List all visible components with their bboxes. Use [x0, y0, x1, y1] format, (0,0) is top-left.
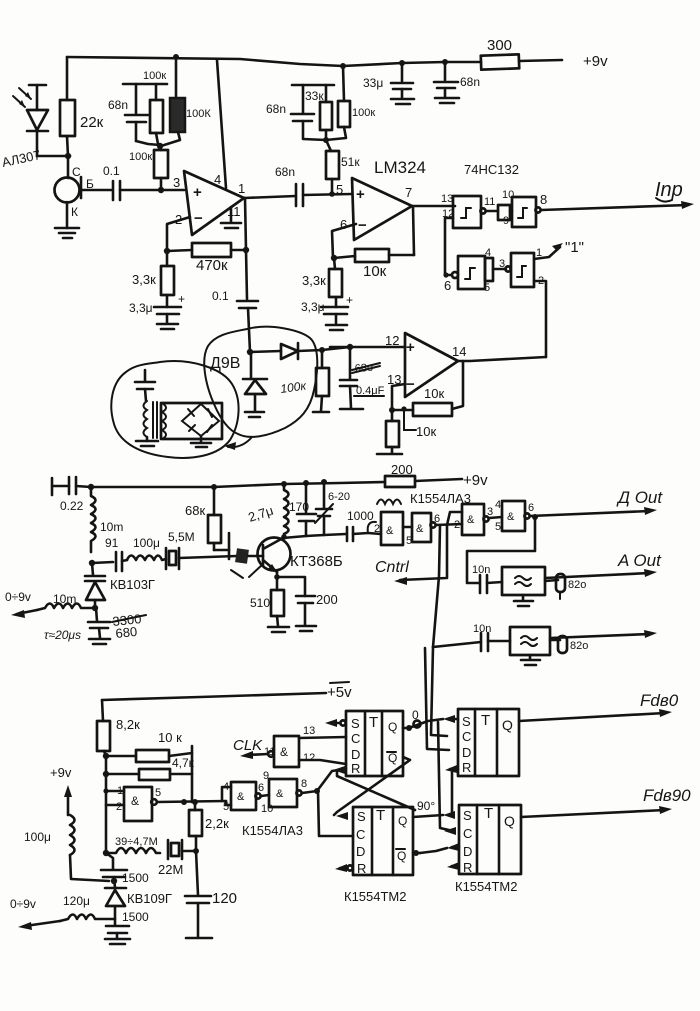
gate 74HC132d — [484, 247, 544, 294]
svg-text:82о: 82о — [568, 579, 586, 591]
svg-text:0.1: 0.1 — [103, 164, 120, 178]
resistor 200 rail — [385, 462, 488, 489]
svg-text:8,2к: 8,2к — [116, 717, 140, 732]
capacitor 10n filter1 — [472, 564, 502, 593]
svg-text:C: C — [356, 827, 365, 842]
svg-text:3,3к: 3,3к — [302, 273, 326, 288]
capacitor 33u — [363, 63, 414, 104]
svg-text:&: & — [467, 514, 475, 526]
node junction b1 — [103, 753, 109, 759]
svg-text:0: 0 — [412, 708, 419, 722]
resistor 100K dark — [161, 57, 211, 146]
node junction b2 — [103, 771, 109, 777]
svg-text:10: 10 — [261, 803, 273, 815]
svg-text:3: 3 — [487, 506, 493, 518]
svg-text:2: 2 — [116, 801, 122, 813]
wire pin12 input — [330, 346, 405, 349]
svg-text:1: 1 — [238, 181, 245, 196]
wire trunk Cntrl — [400, 525, 447, 580]
svg-text:300: 300 — [487, 37, 512, 54]
svg-text:S: S — [463, 808, 472, 823]
svg-text:T: T — [481, 712, 490, 729]
svg-text:1500: 1500 — [122, 871, 149, 885]
wire gateB out — [436, 524, 462, 525]
resistor 82o — [550, 636, 588, 653]
capacitor 0.4uF — [340, 347, 385, 409]
svg-text:Inp: Inp — [655, 179, 683, 201]
node junction pin3 — [158, 187, 164, 193]
node junction DOut-branch — [532, 514, 538, 520]
node junction fb3 — [389, 407, 395, 413]
resistor 10k fb3 — [392, 386, 452, 416]
svg-text:&: & — [131, 794, 139, 808]
svg-text:К1554ТМ2: К1554ТМ2 — [455, 879, 518, 894]
node junction filters — [157, 143, 163, 149]
crystal 22M — [158, 840, 196, 877]
svg-text:D: D — [462, 745, 471, 760]
wire FF1 Qbar cross — [334, 757, 410, 815]
wire FF2 S arrow — [443, 715, 458, 723]
svg-text:T: T — [484, 805, 493, 822]
svg-text:11: 11 — [227, 204, 241, 219]
resistor 820 — [545, 574, 586, 599]
wire Inp output — [541, 179, 694, 210]
gate K1554LA3e — [222, 781, 264, 813]
wire col2 to 51k — [326, 140, 331, 151]
svg-text:82о: 82о — [570, 640, 588, 652]
svg-text:8: 8 — [301, 778, 307, 790]
wire output down — [452, 361, 463, 409]
wire pin4 to rail — [217, 60, 226, 188]
capacitor 68n left column — [108, 84, 160, 145]
svg-text:−: − — [358, 217, 367, 234]
wire 8 down to FF3 C — [318, 791, 353, 836]
svg-text:&: & — [386, 525, 394, 537]
capacitor 1000 — [347, 509, 374, 541]
node junction w8 — [314, 788, 320, 794]
node junction osc2 — [192, 799, 198, 805]
svg-text:Q: Q — [398, 814, 407, 828]
svg-text:Q: Q — [388, 720, 397, 734]
wire node0 down to FF4 C — [438, 722, 449, 830]
varicap KV103G — [85, 563, 155, 608]
svg-text:КВ103Г: КВ103Г — [110, 577, 155, 592]
svg-text:2,2к: 2,2к — [205, 816, 229, 831]
ground transformer — [136, 441, 158, 446]
node junction rail-left — [88, 484, 94, 490]
wire gate1 to row2 — [445, 218, 453, 275]
capacitor 68n mid column — [266, 85, 334, 140]
capacitor 3,3u right — [301, 293, 353, 330]
bridge rectifier — [161, 403, 222, 447]
svg-text:100к: 100к — [129, 151, 152, 163]
wire LL arcs — [377, 500, 401, 505]
capacitor 0.1 input — [103, 164, 120, 200]
svg-text:51к: 51к — [341, 155, 360, 169]
svg-text:5: 5 — [155, 787, 161, 799]
svg-text:3,3к: 3,3к — [132, 272, 156, 287]
svg-text:120μ: 120μ — [63, 894, 90, 908]
capacitor 680 — [44, 608, 146, 644]
capacitor trans-top — [135, 370, 155, 401]
inductor 10m vertical — [91, 487, 123, 552]
svg-text:0÷9v: 0÷9v — [10, 897, 36, 911]
svg-text:КВ109Г: КВ109Г — [127, 891, 172, 906]
wire out arrow filter2 — [550, 630, 657, 638]
wire to phototransistor collector — [67, 156, 70, 178]
svg-text:3: 3 — [499, 258, 505, 270]
capacitor 0.22 — [52, 477, 84, 513]
capacitor 1500 upper — [101, 853, 149, 888]
wire FF1 R cross — [337, 772, 415, 810]
svg-text:1000: 1000 — [347, 509, 374, 523]
svg-text:R: R — [351, 761, 360, 776]
svg-text:&: & — [416, 523, 424, 535]
svg-text:5: 5 — [495, 521, 501, 533]
capacitor 170 — [289, 480, 316, 536]
node junction osc1 — [181, 799, 187, 805]
svg-text:6: 6 — [434, 513, 440, 525]
wire tick — [404, 409, 416, 430]
node junction collector — [281, 534, 287, 540]
wire +5v rail — [102, 682, 352, 701]
svg-text:−: − — [406, 376, 415, 393]
inductor 100u bias — [24, 815, 109, 881]
label CLK11 — [233, 737, 275, 758]
resistor 100k upper-left — [143, 70, 167, 144]
ground pin11 — [221, 207, 241, 228]
svg-text:+: + — [346, 293, 353, 307]
wire emitter to cap200 — [277, 577, 305, 596]
svg-text:К1554ЛА3: К1554ЛА3 — [242, 823, 303, 838]
svg-text:100К: 100К — [186, 108, 211, 120]
svg-text:R: R — [357, 861, 366, 876]
wire FF3 R stub — [335, 864, 353, 872]
node junction fb-left — [164, 248, 170, 254]
svg-text:200: 200 — [316, 592, 338, 607]
node junction LED/22k — [65, 153, 71, 159]
svg-text:Fdв0: Fdв0 — [640, 691, 679, 710]
capacitor 200 emitter — [296, 592, 338, 631]
inductor 100u horizontal — [127, 536, 166, 560]
resistor 100k lower — [129, 146, 168, 190]
filter F1 — [502, 567, 545, 606]
gate 74HC132c — [443, 256, 485, 293]
svg-text:R: R — [463, 860, 472, 875]
svg-text:LM324: LM324 — [374, 158, 426, 177]
svg-text:120: 120 — [212, 890, 237, 907]
node junction b3 — [103, 788, 108, 793]
wire fb vertical — [191, 746, 194, 802]
node junction varicap-top — [89, 560, 95, 566]
resistor 470k — [167, 243, 247, 274]
svg-text:S: S — [351, 716, 360, 731]
svg-text:С: С — [72, 165, 81, 179]
svg-text:13: 13 — [441, 193, 453, 205]
wire opamp1 output — [244, 196, 296, 198]
inductor 39+4,7M — [106, 836, 160, 853]
svg-text:7: 7 — [405, 185, 412, 200]
inductor 10m horizontal — [37, 592, 95, 610]
wire to 120 cap — [196, 851, 198, 895]
svg-text:5,5M: 5,5M — [168, 530, 195, 544]
gate 74HC132a — [441, 193, 495, 228]
svg-text:0÷9v: 0÷9v — [5, 590, 31, 604]
wire FF3 Q to FF4 S — [413, 799, 443, 817]
varicap KV109G — [105, 888, 172, 925]
wire 0.1cap to D9V node — [247, 349, 253, 355]
svg-text:"1": "1" — [565, 239, 584, 256]
svg-text:CLK: CLK — [233, 737, 263, 754]
transistor phototransistor — [55, 165, 112, 228]
capacitor 91 — [92, 536, 127, 571]
flip-flop FF3 K1554TM2 — [353, 807, 413, 876]
svg-text:6: 6 — [258, 782, 264, 794]
op-amp U1 LM324a — [173, 171, 245, 235]
svg-text:0.1: 0.1 — [212, 289, 229, 303]
resistor 8,2k — [97, 700, 140, 756]
svg-text:470к: 470к — [196, 257, 228, 274]
cloud transformer outline — [111, 361, 238, 458]
inductor 2,7u — [246, 481, 288, 538]
wire trunk C — [425, 648, 449, 750]
wire FF2 R arrow — [445, 765, 458, 812]
svg-text:&: & — [280, 745, 288, 759]
resistor 100k detector — [313, 350, 329, 412]
svg-text:12: 12 — [303, 752, 315, 764]
svg-text:T: T — [369, 714, 378, 731]
svg-text:1500: 1500 — [122, 910, 149, 924]
svg-text:D: D — [356, 844, 365, 859]
svg-text:&: & — [276, 788, 284, 800]
svg-text:13: 13 — [303, 725, 315, 737]
wire FF4 D arrow — [447, 843, 459, 851]
svg-text:3: 3 — [173, 175, 180, 190]
svg-text:+9v: +9v — [463, 472, 488, 489]
svg-text:5: 5 — [484, 282, 490, 294]
svg-text:8: 8 — [540, 192, 547, 207]
svg-text:+9v: +9v — [50, 765, 72, 780]
gate K1554LA3f — [261, 770, 307, 815]
transformer T1 — [144, 401, 167, 441]
svg-text:10к: 10к — [363, 263, 387, 280]
gate K1554LA3b — [403, 513, 440, 547]
svg-text:10: 10 — [502, 189, 514, 201]
svg-text:К: К — [71, 205, 78, 219]
svg-text:C: C — [463, 826, 472, 841]
resistor 22k — [60, 57, 104, 156]
svg-text:Q: Q — [502, 717, 513, 733]
wire 8 to FF1 R — [317, 769, 346, 791]
flip-flop FF1 K1554TM2 — [346, 711, 403, 776]
wire to pin12 — [322, 347, 350, 350]
svg-text:68n: 68n — [460, 75, 480, 89]
svg-text:Д Out: Д Out — [616, 488, 663, 507]
resistor 3,3k right — [302, 258, 342, 307]
svg-text:90°: 90° — [417, 799, 435, 813]
wire 8 to FF — [302, 791, 317, 793]
wire pin6 loop — [332, 224, 356, 258]
wire +9v branch — [50, 765, 72, 815]
capacitor 120 — [185, 890, 237, 938]
wire LED to node — [37, 155, 70, 158]
diode D9V vertical — [243, 352, 267, 417]
node junction rail-100K — [173, 54, 179, 60]
op-amp U3 LM324c — [385, 333, 466, 397]
svg-text:11: 11 — [484, 196, 495, 208]
flip-flop FF4 K1554TM2 — [459, 805, 521, 875]
filter F2 — [510, 627, 550, 665]
svg-text:Cntrl: Cntrl — [375, 559, 409, 576]
svg-text:2: 2 — [454, 519, 460, 531]
node junction pin12 — [347, 344, 353, 350]
wire D Out arrow — [530, 488, 663, 516]
svg-text:68n: 68n — [275, 165, 295, 179]
gate K1554LA3d — [495, 499, 534, 533]
svg-text:Б: Б — [86, 177, 94, 191]
resistor 10k osc — [106, 730, 192, 762]
node junction col2 — [323, 137, 329, 143]
wire trunk A — [433, 525, 440, 647]
cloud D9V outline — [204, 327, 317, 437]
svg-text:22М: 22М — [158, 862, 183, 877]
gate K1554LA3a — [368, 512, 403, 545]
capacitor 68n coupling-2 — [275, 165, 352, 206]
node junction varicap-bottom — [92, 605, 98, 611]
svg-text:3,3μ: 3,3μ — [129, 301, 153, 315]
wire FF1 Q to node 0 — [403, 708, 443, 731]
svg-text:6: 6 — [528, 502, 534, 514]
svg-text:A Out: A Out — [617, 551, 662, 570]
svg-text:100μ: 100μ — [133, 536, 160, 550]
svg-text:10 к: 10 к — [158, 730, 182, 745]
svg-text:&: & — [237, 791, 245, 803]
svg-text:9: 9 — [263, 770, 269, 782]
svg-text:D: D — [351, 747, 360, 762]
transistor KT368B — [248, 538, 343, 573]
wire between gates — [486, 205, 512, 220]
svg-text:Fdв90: Fdв90 — [643, 786, 691, 805]
wire osc out — [157, 801, 226, 802]
wire filter2 feed — [433, 642, 481, 647]
svg-text:+: + — [178, 292, 185, 306]
wire opamp3 output — [458, 357, 546, 361]
gate K1554LA3c — [447, 504, 502, 535]
svg-text:0.22: 0.22 — [60, 499, 84, 513]
svg-text:−: − — [194, 210, 203, 227]
svg-text:10к: 10к — [424, 386, 444, 401]
svg-text:Q: Q — [388, 751, 397, 765]
svg-text:22к: 22к — [80, 114, 104, 131]
wire FF3 Qbar to FF4 D — [413, 848, 447, 856]
svg-text:+: + — [406, 339, 415, 356]
wire FF3 S arrow — [336, 812, 348, 820]
svg-text:6: 6 — [444, 278, 451, 293]
svg-text:R: R — [462, 760, 471, 775]
svg-text:T: T — [376, 807, 385, 824]
svg-text:C: C — [462, 729, 471, 744]
ground phototransistor — [55, 228, 79, 238]
svg-text:+9v: +9v — [583, 53, 608, 70]
svg-text:74HC132: 74HC132 — [464, 162, 519, 177]
wire Fdv0 arrow — [519, 691, 679, 721]
op-amp U2 LM324b — [336, 158, 426, 240]
svg-text:510: 510 — [250, 596, 270, 610]
resistor 510 — [250, 590, 289, 632]
capacitor 3,3u left — [129, 292, 185, 329]
svg-text:680: 680 — [115, 624, 138, 641]
resistor 3,3k left — [132, 251, 174, 307]
wire opamp2 output — [412, 205, 455, 208]
svg-text:6-20: 6-20 — [328, 491, 350, 503]
wire FF4 C arrow — [444, 827, 456, 835]
capacitor 68n top — [434, 62, 480, 103]
svg-text:Q: Q — [504, 813, 515, 829]
svg-text:39÷4,7М: 39÷4,7М — [115, 836, 158, 848]
resistor 68k — [185, 484, 229, 559]
wire node "1" — [534, 239, 584, 259]
resistor 10k fb2 — [334, 207, 414, 280]
capacitor trimmer 6-20 — [315, 479, 350, 535]
gate 74HC132b — [502, 189, 547, 227]
node junction fb-right — [243, 247, 249, 253]
diode D9V horizontal — [250, 343, 322, 359]
svg-text:100к: 100к — [352, 107, 375, 119]
svg-text:5: 5 — [336, 182, 343, 197]
wire mid +9v rail — [76, 482, 385, 487]
svg-text:+5v: +5v — [327, 684, 352, 701]
node junction xtal — [193, 848, 199, 854]
svg-text:S: S — [462, 714, 471, 729]
resistor 10k to gnd — [377, 410, 436, 454]
LED AL307 — [1, 85, 48, 170]
node junction rail-68n — [442, 59, 448, 65]
svg-text:10m: 10m — [100, 520, 123, 534]
wire output down — [245, 198, 247, 299]
svg-text:100μ: 100μ — [24, 830, 51, 844]
wire cap to opamp pin3 — [120, 189, 184, 192]
wire gate4 to opamp3 — [534, 281, 546, 357]
node junction 51k-pin5 — [329, 191, 335, 197]
wire 13 to FF1 C — [299, 737, 346, 738]
node junction b4 — [103, 850, 109, 856]
node junction emitter — [274, 574, 280, 580]
wire pin13 — [392, 384, 405, 410]
svg-text:τ≈20μs: τ≈20μs — [44, 628, 81, 642]
gate K1554LA3 osc — [106, 785, 161, 821]
svg-text:5: 5 — [406, 535, 412, 547]
svg-text:6: 6 — [340, 217, 347, 232]
wire emitter — [276, 572, 279, 590]
svg-text:Q: Q — [397, 849, 406, 863]
ferrite bead — [231, 548, 263, 578]
wire bias bus — [105, 756, 108, 853]
resistor 51k — [326, 151, 360, 194]
resistor 2,2k — [189, 802, 229, 851]
resistor 300 — [481, 37, 562, 70]
inductor 120u — [10, 894, 115, 930]
wire A Out arrow — [545, 551, 662, 578]
wire branch to filter1 — [467, 517, 535, 583]
wire arrow 0-9v mid — [5, 590, 37, 618]
svg-text:4: 4 — [495, 499, 501, 511]
wire pin2 loop — [167, 217, 190, 251]
resistor 33k — [305, 85, 332, 140]
svg-text:68к: 68к — [185, 503, 205, 518]
wire +9v top rail — [67, 57, 481, 66]
resistor 4,7k — [106, 756, 195, 780]
wire FF4 S arrow — [443, 811, 455, 819]
